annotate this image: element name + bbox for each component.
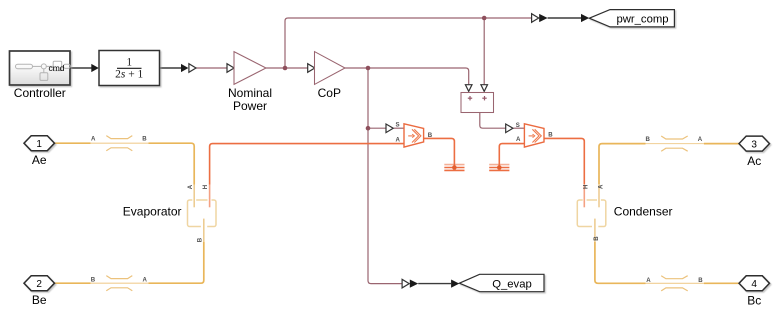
wire CoP output to sum left input xyxy=(345,68,469,84)
arrowhead Transfer Fcn output xyxy=(181,64,188,72)
svg-text:1: 1 xyxy=(36,139,42,150)
svg-text:B: B xyxy=(645,136,650,143)
wire Be port2 to Evaporator B xyxy=(55,242,204,283)
Evaporator port stub B xyxy=(203,219,205,242)
svg-text:Condenser: Condenser xyxy=(614,204,673,218)
thermal reference left xyxy=(444,165,464,171)
port 4 Bc xyxy=(739,276,770,291)
Evaporator port stub H xyxy=(209,185,211,208)
PS port marker before Q_evap xyxy=(402,279,409,288)
svg-text:4: 4 xyxy=(751,279,757,290)
port 3 Ac xyxy=(739,136,770,151)
svg-text:B: B xyxy=(91,276,96,283)
Evaporator block xyxy=(188,185,217,242)
arrowhead into Transfer Fcn xyxy=(91,64,99,72)
arrowhead into Q_evap tag xyxy=(451,280,459,288)
PS input marker Nominal Power xyxy=(227,64,234,73)
wire Nominal Power to CoP xyxy=(266,67,308,69)
port 2 Be xyxy=(24,276,55,291)
svg-text:B: B xyxy=(142,136,147,143)
connection break marks on Be wire xyxy=(106,276,132,291)
transfer function block 1/(2s+1) xyxy=(99,51,160,86)
svg-text:A: A xyxy=(516,136,521,143)
heat flow source right xyxy=(524,124,544,147)
svg-text:A: A xyxy=(142,276,147,283)
PS input marker right source S xyxy=(506,124,513,133)
thermal reference right xyxy=(489,165,509,171)
svg-text:A: A xyxy=(598,184,605,189)
svg-text:Power: Power xyxy=(233,99,267,113)
connection break marks on Ae wire xyxy=(106,136,132,151)
arrowhead after PS marker Q_evap xyxy=(410,280,418,288)
port 1 Ae xyxy=(24,136,55,151)
wire port labels A/B xyxy=(91,136,703,284)
svg-text:cmd: cmd xyxy=(48,63,64,73)
junction node Nominal Power output xyxy=(283,66,288,71)
output tag pwr_comp xyxy=(589,10,674,27)
svg-text:B: B xyxy=(698,277,703,284)
svg-text:A: A xyxy=(646,277,651,284)
svg-text:S: S xyxy=(395,121,399,128)
wire left source S arrow to block xyxy=(394,127,404,129)
right source port labels xyxy=(516,122,554,143)
svg-text:B: B xyxy=(428,132,433,139)
Evaporator port labels xyxy=(187,184,209,242)
thermal wire right source A to thermal reference xyxy=(499,144,524,166)
PS port marker after Transfer Fcn xyxy=(189,64,196,73)
PS input marker left source S xyxy=(386,124,393,133)
Evaporator port stub A xyxy=(193,185,195,208)
svg-text:CoP: CoP xyxy=(318,86,341,100)
thermal wire Evaporator H to heat source A xyxy=(210,144,404,185)
Controller icon preview xyxy=(16,61,71,80)
svg-text:pwr_comp: pwr_comp xyxy=(616,13,668,25)
svg-text:1: 1 xyxy=(126,56,132,68)
wire Ae port1 to Evaporator A xyxy=(55,143,195,184)
PS port marker before pwr_comp xyxy=(532,14,539,23)
left source port labels xyxy=(395,121,432,143)
thermal wire right source B to Condenser H xyxy=(544,138,584,184)
svg-text:Controller: Controller xyxy=(14,86,66,100)
svg-text:Be: Be xyxy=(32,293,47,307)
svg-text:A: A xyxy=(91,136,96,143)
heat flow source left xyxy=(404,124,424,147)
wire branch up from Nominal Power output to top line and pwr_comp xyxy=(285,18,531,68)
Condenser port stub A xyxy=(598,184,600,207)
svg-text:B: B xyxy=(593,236,600,241)
svg-text:H: H xyxy=(583,185,590,189)
svg-text:3: 3 xyxy=(751,139,757,150)
wire sum output to right source S input xyxy=(480,113,506,129)
output tag Q_evap xyxy=(459,274,544,291)
svg-text:2: 2 xyxy=(36,279,42,290)
svg-text:H: H xyxy=(202,185,209,189)
arrowhead after PS marker pwr_comp xyxy=(539,14,547,22)
svg-text:Ae: Ae xyxy=(32,153,47,167)
svg-text:B: B xyxy=(197,237,204,242)
connection break marks on Bc wire xyxy=(661,276,688,291)
signal wire Controller to Transfer Fcn xyxy=(70,18,581,284)
junction node top line xyxy=(482,16,487,21)
svg-text:Evaporator: Evaporator xyxy=(123,204,182,218)
svg-text:Bc: Bc xyxy=(747,293,761,307)
svg-text:Q_evap: Q_evap xyxy=(492,278,532,290)
sum left input arrow xyxy=(465,85,472,92)
wire Condenser B to port4 Bc xyxy=(595,242,739,283)
connection break marks on Ac wire xyxy=(661,136,688,151)
physical signal wires (maroon) xyxy=(196,18,531,128)
wire top junction down to sum right input xyxy=(483,18,485,84)
svg-text:B: B xyxy=(548,131,553,138)
sum block xyxy=(461,93,494,113)
wire TF to Nominal Power xyxy=(196,67,227,69)
PS input marker CoP xyxy=(308,64,315,73)
Condenser port stub H xyxy=(583,184,585,207)
svg-text:2s + 1: 2s + 1 xyxy=(115,69,143,81)
svg-text:A: A xyxy=(395,136,400,143)
Condenser port labels xyxy=(583,184,605,241)
svg-text:A: A xyxy=(698,136,703,143)
junction node CoP output xyxy=(366,66,371,71)
Controller subsystem block xyxy=(10,51,71,85)
sum right input arrow xyxy=(481,85,488,92)
wire CoP branch down to Q_evap xyxy=(368,68,402,284)
gain Nominal Power xyxy=(234,52,266,85)
svg-text:A: A xyxy=(187,184,194,189)
arrowhead into pwr_comp tag xyxy=(581,14,589,22)
svg-text:S: S xyxy=(516,122,520,129)
wire right source S arrow to block xyxy=(513,127,524,129)
junction node left source S branch xyxy=(366,126,371,131)
wire branch to left source S input xyxy=(368,127,386,129)
thermal wire left source B to thermal reference xyxy=(424,138,455,166)
gain CoP xyxy=(315,52,346,85)
Condenser block xyxy=(577,184,606,242)
Condenser port stub B xyxy=(594,219,596,242)
svg-text:Ac: Ac xyxy=(747,154,761,168)
wire Condenser A to port3 Ac xyxy=(599,144,739,185)
